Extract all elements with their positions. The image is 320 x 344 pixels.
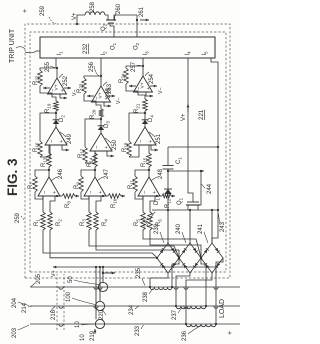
wire sensor2 to rail <box>99 267 101 301</box>
bridge rectifier 241 <box>201 243 223 273</box>
wire R11 to output <box>135 170 149 176</box>
wire winding236 to bridge3 ac2 <box>216 258 223 324</box>
svg-text:−: − <box>42 191 48 194</box>
wire riser A to bridge <box>89 230 179 258</box>
svg-text:203: 203 <box>12 327 18 338</box>
wire winding238 to bridge1 ac2 <box>172 258 179 287</box>
wire R18 to node <box>129 113 145 141</box>
diode D4 <box>142 120 148 124</box>
comparator V- arrow <box>150 85 157 87</box>
wire R9 to output <box>81 170 95 176</box>
IC box 232 <box>40 37 215 58</box>
wire Q2 source to O2 node <box>118 14 137 16</box>
svg-text:239: 239 <box>154 223 160 234</box>
wire R12 arrow <box>171 195 175 197</box>
wire + input <box>150 196 155 212</box>
wire O1 to Q2 gate <box>110 23 114 37</box>
svg-text:D2: D2 <box>59 115 65 122</box>
wire winding237 to bridge2 ac2 <box>201 258 206 306</box>
wire winding236 to bridge3 ac1 <box>186 273 212 324</box>
svg-text:D3: D3 <box>104 121 110 128</box>
winding 238 <box>150 287 172 290</box>
svg-text:249: 249 <box>67 133 73 144</box>
resistor R5 <box>141 212 146 230</box>
svg-text:V+: V+ <box>51 270 57 277</box>
sensor coil 50 on conductor 1 <box>98 282 107 291</box>
wire sensor1 to rail <box>102 267 104 282</box>
svg-text:258: 258 <box>90 1 96 12</box>
svg-text:214: 214 <box>22 302 28 313</box>
svg-text:R3: R3 <box>80 219 86 226</box>
wire winding238 to bridge1 ac1 <box>150 273 168 287</box>
svg-text:FIG. 3: FIG. 3 <box>5 158 20 196</box>
comparator + stub <box>60 94 63 98</box>
wire sensor3 to rail <box>95 267 97 319</box>
trip unit outer dashed boundary 259 <box>25 24 230 278</box>
wire diode to node <box>100 117 102 126</box>
wire rail to D1 <box>167 194 169 210</box>
resistor R4 <box>94 212 99 230</box>
svg-text:R11: R11 <box>128 179 134 189</box>
svg-text:10: 10 <box>80 334 86 341</box>
svg-text:R22: R22 <box>33 75 39 85</box>
svg-text:252: 252 <box>63 75 69 86</box>
inner dashed boundary 221 region <box>30 32 226 272</box>
left V+ arrow <box>53 266 58 268</box>
op-amp 249 <box>45 127 67 145</box>
svg-text:100: 100 <box>66 291 72 302</box>
svg-text:235: 235 <box>136 267 142 278</box>
wire R16 to node <box>40 113 56 141</box>
wire diode to node <box>55 111 57 120</box>
winding 236 <box>186 324 216 327</box>
resistor R17 <box>83 147 88 163</box>
resistor R1 <box>41 212 46 230</box>
svg-text:R24: R24 <box>119 73 125 83</box>
svg-text:259: 259 <box>40 5 46 16</box>
resistor R10 <box>108 194 121 199</box>
op-amp 250 <box>90 133 112 151</box>
wire riser B to bridge <box>50 230 157 258</box>
svg-text:I4: I4 <box>185 51 191 56</box>
stage2 + input arrow <box>151 145 154 150</box>
svg-text:236: 236 <box>182 330 188 341</box>
leader for 259 right <box>49 17 56 24</box>
resistor R19 <box>54 101 59 111</box>
wire + input <box>50 196 55 212</box>
svg-text:+: + <box>59 140 65 143</box>
hop on conductor 1 <box>59 287 63 289</box>
svg-text:V+: V+ <box>98 92 104 98</box>
svg-text:R7: R7 <box>28 182 34 189</box>
wire common stub with arrow <box>168 170 204 172</box>
conductor line 203/233 <box>30 323 244 325</box>
capacitor C1 <box>167 169 169 171</box>
svg-text:I1: I1 <box>57 51 63 56</box>
comparator V+ arrow <box>43 87 50 89</box>
wire stage2 output <box>55 124 57 127</box>
svg-text:10: 10 <box>75 321 81 328</box>
resistor R13 <box>47 153 52 167</box>
svg-text:259: 259 <box>15 212 21 223</box>
wire stage1 output <box>48 167 50 177</box>
svg-text:R5: R5 <box>134 219 140 226</box>
wire R12 stub <box>160 195 162 197</box>
V+ rail arrow <box>187 104 189 112</box>
svg-text:D1: D1 <box>154 198 160 205</box>
wire to stage2 - input <box>94 151 96 153</box>
wire 261 arrow <box>140 19 149 21</box>
sensor coil 100 on conductor 2 <box>95 301 104 310</box>
svg-text:V−: V− <box>158 88 164 95</box>
svg-text:261: 261 <box>139 6 145 17</box>
dc rail 242 <box>152 209 218 211</box>
wire winding237 to bridge2 ac1 <box>176 273 190 306</box>
comparator + stub <box>146 92 149 96</box>
svg-text:R10: R10 <box>111 198 117 208</box>
resistor R16 <box>38 141 43 157</box>
wire to comparator - <box>96 102 101 109</box>
svg-text:V+: V+ <box>54 84 60 90</box>
op-amp 246 <box>38 177 60 196</box>
svg-text:R20: R20 <box>90 109 96 119</box>
bridge rectifier 239 <box>157 243 179 273</box>
wire to comparator - <box>52 94 56 101</box>
svg-text:O2: O2 <box>134 42 140 50</box>
svg-text:205: 205 <box>36 273 42 284</box>
svg-text:V−: V− <box>116 98 122 105</box>
wire to comparator - <box>138 92 145 99</box>
svg-text:238: 238 <box>143 291 149 302</box>
wire R24 to - input <box>126 84 138 92</box>
resistor R15 <box>147 153 152 167</box>
wire riser A to bridge <box>43 230 157 258</box>
wire R10 arrow <box>121 195 125 197</box>
wire bridge 239 dc link <box>167 210 169 243</box>
wire O2 line <box>136 15 138 37</box>
resistor R12 <box>162 194 171 199</box>
svg-text:+: + <box>152 191 158 194</box>
svg-text:−: − <box>138 140 144 143</box>
dashed boundary segment b <box>63 274 65 330</box>
resistor R3 <box>87 212 92 230</box>
wire riser B to bridge <box>150 230 201 258</box>
svg-text:R8: R8 <box>65 201 71 208</box>
transistor Q2 <box>106 19 116 21</box>
svg-text:V+: V+ <box>181 113 187 121</box>
wire R17 loop <box>85 151 95 163</box>
svg-text:Q2: Q2 <box>101 23 107 31</box>
wire bridge 241 dc link <box>211 210 213 243</box>
wire - input <box>88 196 90 212</box>
wire R8 stub <box>60 195 62 197</box>
hop on conductor 3 <box>59 324 63 326</box>
op-amp 247 <box>84 177 106 196</box>
leader for 259 left <box>21 216 25 220</box>
diode D2 <box>53 120 59 124</box>
rail 243 to pin I5 <box>211 58 218 243</box>
op-amp 251 <box>134 127 156 145</box>
wire R24 loop <box>126 66 143 68</box>
resistor R21 <box>143 99 148 111</box>
svg-text:C1: C1 <box>176 157 182 164</box>
resistor R14 <box>93 153 98 167</box>
svg-text:204: 204 <box>12 297 18 308</box>
resistor R7 <box>33 176 38 192</box>
resistor R9 <box>79 176 84 192</box>
wire R23 loop <box>84 76 101 78</box>
svg-text:O1: O1 <box>111 42 117 50</box>
svg-text:250: 250 <box>112 139 118 150</box>
svg-text:233: 233 <box>135 325 141 336</box>
transistor Q1 <box>186 204 200 206</box>
svg-text:+: + <box>52 191 58 194</box>
svg-text:237: 237 <box>172 309 178 320</box>
svg-text:I3: I3 <box>143 51 149 56</box>
svg-text:50: 50 <box>68 276 74 283</box>
comparator + stub <box>104 102 107 106</box>
svg-text:R19: R19 <box>45 103 51 113</box>
svg-text:248: 248 <box>158 168 164 179</box>
svg-text:245: 245 <box>106 87 112 98</box>
svg-text:244: 244 <box>207 183 213 194</box>
svg-text:V+: V+ <box>140 82 146 88</box>
svg-text:234: 234 <box>129 304 135 315</box>
wire stage1 output <box>94 167 96 177</box>
bridge rectifier 240 <box>179 243 201 273</box>
wire R16 loop <box>40 145 50 157</box>
comparator V- arrow <box>64 87 71 89</box>
resistor R8 <box>62 194 75 199</box>
wire comparator output to pin <box>56 58 57 78</box>
resistor R6 <box>148 212 153 230</box>
svg-text:R21: R21 <box>134 103 140 113</box>
svg-text:260: 260 <box>116 3 122 14</box>
wire trip-unit lead-in <box>25 51 40 53</box>
svg-text:R16: R16 <box>33 142 39 152</box>
wire R23 to - input <box>84 94 96 102</box>
dashed boundary segment a <box>56 274 58 330</box>
left V+ rail <box>58 266 218 268</box>
svg-text:I5: I5 <box>202 51 208 56</box>
svg-text:+: + <box>98 191 104 194</box>
svg-text:216: 216 <box>51 309 57 320</box>
svg-text:R14: R14 <box>87 157 93 167</box>
svg-text:220: 220 <box>99 309 105 320</box>
winding 237 <box>176 306 206 309</box>
wire riser B to bridge <box>96 230 179 258</box>
comparator V+ arrow <box>129 85 136 87</box>
wire R7 to output <box>35 170 49 176</box>
svg-text:TRIP UNIT: TRIP UNIT <box>9 28 16 63</box>
common arrow below sensors <box>103 272 115 274</box>
coil 258 <box>85 12 105 15</box>
svg-text:Q1: Q1 <box>177 197 183 205</box>
wire comparator output to pin <box>142 58 144 76</box>
svg-text:R2: R2 <box>56 219 62 226</box>
resistor R20 <box>99 109 104 117</box>
svg-text:−: − <box>49 140 55 143</box>
comparator V- arrow <box>108 95 115 97</box>
svg-text:247: 247 <box>104 168 110 179</box>
wire + input <box>96 196 101 212</box>
wire diode to node <box>144 111 146 120</box>
stage2 + input arrow <box>62 145 65 150</box>
comparator V+ arrow <box>87 95 94 97</box>
svg-text:−: − <box>94 146 100 149</box>
diode D3 <box>98 126 104 130</box>
wire riser A to bridge <box>143 230 201 258</box>
hop on conductor 2 <box>59 306 63 308</box>
wire stage1 output <box>148 167 150 177</box>
svg-text:V+: V+ <box>72 12 78 20</box>
comparator 253 <box>92 86 111 102</box>
V+ rail to pin I4 <box>188 58 193 202</box>
wire stage2 output <box>144 124 146 127</box>
svg-text:257: 257 <box>131 61 137 72</box>
svg-text:241: 241 <box>198 223 204 234</box>
svg-text:R13: R13 <box>41 157 47 167</box>
wire R8 arrow <box>75 195 79 197</box>
svg-text:+: + <box>227 331 234 335</box>
wire R22 loop <box>40 68 57 70</box>
svg-text:+: + <box>60 89 66 92</box>
resistor R22 <box>38 70 43 86</box>
svg-text:R1: R1 <box>34 219 40 226</box>
wire to stage2 - input <box>139 145 149 153</box>
svg-text:255: 255 <box>45 61 51 72</box>
svg-text:+: + <box>22 9 29 13</box>
svg-text:251: 251 <box>156 133 162 144</box>
leader from TRIP UNIT to boundary <box>16 47 25 49</box>
svg-text:LOAD: LOAD <box>219 299 226 318</box>
svg-text:−: − <box>142 191 148 194</box>
sensor coil 10 on conductor 3 <box>95 319 104 328</box>
wire R17 to node <box>85 119 101 147</box>
svg-text:242: 242 <box>144 216 150 227</box>
wire R18 loop <box>129 145 139 157</box>
comparator 254 <box>134 76 153 92</box>
svg-text:−: − <box>88 191 94 194</box>
wire R7 loop <box>35 192 43 199</box>
wire bridge 240 dc link <box>189 210 191 243</box>
svg-text:246: 246 <box>58 168 64 179</box>
wire to stage2 - input <box>49 145 50 153</box>
svg-text:240: 240 <box>176 223 182 234</box>
wire V+ to coil <box>77 15 85 24</box>
svg-text:254: 254 <box>149 73 155 84</box>
svg-text:I2: I2 <box>101 51 107 56</box>
wire C1 node to rail 243 <box>168 146 218 148</box>
conductor line 204/234 <box>30 305 244 307</box>
wire R10 stub <box>106 195 108 197</box>
resistor R18 <box>127 141 132 157</box>
svg-text:+: + <box>146 87 152 90</box>
stage2 + input arrow <box>107 151 110 156</box>
svg-text:R15: R15 <box>141 157 147 167</box>
wire stage2 output <box>100 130 102 133</box>
wire R22 to - input <box>40 86 52 94</box>
svg-text:R17: R17 <box>78 148 84 158</box>
svg-text:221: 221 <box>198 109 205 120</box>
svg-text:+: + <box>148 140 154 143</box>
svg-text:R23: R23 <box>77 83 83 93</box>
op-amp 248 <box>138 177 160 196</box>
svg-text:232: 232 <box>82 43 89 54</box>
svg-text:R18: R18 <box>122 142 128 152</box>
svg-text:R4: R4 <box>102 219 108 226</box>
wire R11 loop <box>135 192 143 199</box>
resistor R2 <box>48 212 53 230</box>
wire comparator output to pin <box>100 58 102 86</box>
svg-text:+: + <box>104 146 110 149</box>
svg-text:243: 243 <box>220 221 226 232</box>
svg-text:R9: R9 <box>74 182 80 189</box>
resistor R23 <box>82 78 87 94</box>
wire - input <box>42 196 44 212</box>
wire R9 loop <box>81 192 89 199</box>
resistor R11 <box>133 176 138 192</box>
wire D1 to node <box>167 171 169 189</box>
resistor R24 <box>124 68 129 84</box>
wire Q1 drain 244 <box>200 171 201 205</box>
wire - input <box>142 196 144 212</box>
svg-text:D4: D4 <box>148 115 154 122</box>
conductor line 205/235 <box>30 286 244 288</box>
comparator 252 <box>48 78 67 94</box>
diode D1 <box>164 189 172 194</box>
